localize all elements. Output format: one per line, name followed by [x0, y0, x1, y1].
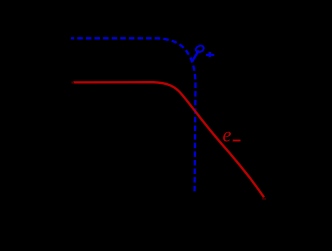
- curve beta-plus (blue dashed): [71, 38, 196, 192]
- label p (italic, bowl): [195, 44, 205, 53]
- curve e-minus faint lead-in: [72, 81, 75, 83]
- curve e-minus faint tip smudge: [262, 198, 266, 200]
- label e minus sign: [233, 140, 241, 142]
- curve e-minus (red solid): [73, 82, 264, 197]
- label p plus sign: [206, 52, 214, 57]
- svg-text:e: e: [223, 125, 232, 147]
- label p stem: [192, 51, 198, 61]
